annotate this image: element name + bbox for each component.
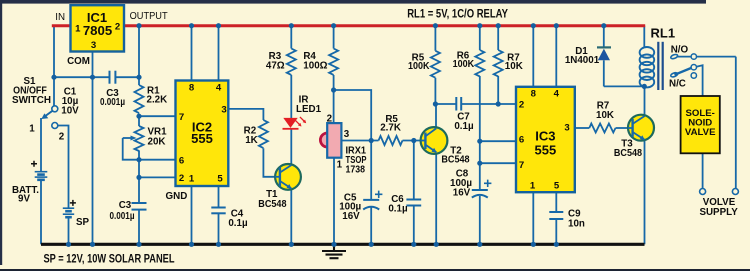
wire: IC2 pin3 line to R2 (228, 109, 263, 120)
battery BATT 9V (35, 172, 48, 180)
frame bottom (0, 269, 750, 271)
svg-text:8: 8 (189, 83, 195, 94)
wire: rail end to coil top (643, 26, 645, 48)
svg-text:7: 7 (519, 160, 524, 171)
wire: IC1 pin3 column (92, 52, 94, 245)
capacitor C5 electrolytic (363, 200, 379, 210)
capacitor C7 (horizontal) (456, 97, 461, 111)
transistor T2 BC548 (420, 127, 447, 154)
wire: IC2 pin6 line (139, 159, 176, 161)
wire: LED to T1 collector (290, 130, 292, 165)
wire: N/O contact line to right column (678, 56, 736, 58)
capacitor C8 electrolytic (472, 190, 488, 198)
capacitor C6 (406, 200, 421, 206)
diode D1 1N4001 (597, 47, 611, 60)
wire: T1 emitter to rail (290, 190, 292, 245)
capacitor C3 bottom (132, 203, 147, 210)
svg-text:47Ω: 47Ω (266, 61, 285, 72)
svg-text:1: 1 (337, 160, 343, 171)
svg-text:1: 1 (75, 24, 81, 35)
svg-text:1N4001: 1N4001 (565, 55, 600, 66)
wire: R1/VR1 column (138, 26, 140, 85)
svg-text:SP: SP (76, 217, 90, 228)
svg-text:7805: 7805 (83, 23, 112, 38)
IR LED1 (283, 117, 307, 129)
wire: pole to solenoid box (696, 65, 702, 96)
wire: TSOP pin1 to rail (333, 158, 335, 245)
wire: solenoid box bottom to supply circle (702, 153, 704, 188)
wire: C7 line (pin2 of IC3) (435, 103, 456, 105)
svg-text:BC548: BC548 (441, 155, 470, 166)
supply terminals (700, 189, 706, 195)
transistor T1 BC548 (275, 164, 301, 190)
svg-text:555: 555 (535, 142, 557, 157)
svg-text:2: 2 (519, 100, 524, 111)
wire: left IN vertical from rail to switch (53, 26, 55, 106)
svg-text:555: 555 (191, 131, 213, 146)
svg-text:6: 6 (519, 135, 524, 146)
wire: IC2 pin1 column to rail (191, 186, 193, 244)
svg-text:2: 2 (179, 173, 184, 184)
svg-text:OUTPUT: OUTPUT (130, 11, 168, 22)
svg-text:BC548: BC548 (258, 199, 287, 210)
svg-text:0.001µ: 0.001µ (100, 97, 125, 108)
svg-text:10n: 10n (568, 219, 585, 230)
svg-text:2: 2 (59, 132, 65, 143)
wire: IC3 pin4 column (555, 26, 557, 87)
svg-text:7: 7 (179, 112, 184, 123)
svg-text:100K: 100K (453, 59, 475, 70)
resistor R7 10K top (494, 50, 503, 76)
svg-text:IC3: IC3 (535, 128, 555, 143)
wire: R2 bottom to T1 base (263, 148, 274, 177)
svg-text:N/C: N/C (669, 79, 686, 90)
wire: IC2 pin5 / C4 column (218, 186, 220, 208)
svg-text:RL1 = 5V, 1C/O RELAY: RL1 = 5V, 1C/O RELAY (407, 7, 508, 20)
wire: IC2 pin8 column (191, 26, 193, 81)
relay contacts (670, 54, 696, 79)
SP plus (70, 200, 76, 206)
wire: D1 to coil bottom (604, 85, 645, 87)
svg-text:16V: 16V (342, 211, 360, 222)
solar panel SP symbol (63, 208, 74, 217)
switch S1 (41, 106, 58, 129)
svg-text:3: 3 (344, 129, 350, 140)
transistor T3 BC548 (628, 115, 654, 141)
wire: R3/LED column top (290, 26, 292, 49)
svg-text:1: 1 (189, 174, 195, 185)
C5 plus sign (375, 191, 382, 198)
wire: VR1 wiper arrow line (123, 137, 133, 139)
frame top (0, 0, 706, 4)
wire: TSOP pin3 line / R5 2.7K run (341, 140, 378, 142)
top power rail (red) (52, 24, 645, 27)
svg-text:BC548: BC548 (614, 148, 643, 159)
wire: T2 emitter to rail (435, 154, 437, 245)
svg-text:10V: 10V (61, 106, 79, 117)
svg-text:3: 3 (221, 105, 226, 116)
wire: IC3 pin7 line (480, 162, 516, 164)
wire: COM horizontal line (54, 76, 110, 78)
wire: IC2 pin2 line (139, 176, 176, 178)
wire: IC2 pin7 line (139, 115, 176, 117)
svg-text:RL1: RL1 (651, 26, 676, 41)
wire: C6 column (413, 141, 415, 200)
svg-text:4: 4 (554, 89, 560, 100)
svg-text:SWITCH: SWITCH (12, 95, 51, 106)
resistor R4 100ohm (329, 49, 338, 75)
svg-text:100K: 100K (408, 61, 430, 72)
svg-text:20K: 20K (148, 137, 166, 148)
relay RL1 coil (640, 47, 655, 87)
C8 plus sign (484, 180, 491, 187)
wire: coil bottom to T3 collector (644, 86, 646, 114)
wire: battery column (40, 118, 42, 172)
svg-text:10K: 10K (505, 61, 523, 72)
svg-text:100Ω: 100Ω (303, 61, 327, 72)
svg-text:2.2K: 2.2K (147, 94, 168, 105)
wire: C5 column (370, 141, 372, 200)
wire: SP branch (58, 126, 69, 208)
wire: IC3 pin1 column (532, 192, 534, 244)
wire: D1 column (603, 26, 605, 47)
svg-text:SP = 12V, 10W SOLAR PANEL: SP = 12V, 10W SOLAR PANEL (44, 252, 175, 265)
svg-text:8: 8 (531, 89, 537, 100)
svg-text:LED1: LED1 (296, 104, 322, 115)
svg-text:6: 6 (179, 156, 184, 167)
wire: R7 top column (497, 26, 499, 50)
wire: R5 100K column / T2 collector (434, 26, 436, 51)
svg-text:10K: 10K (596, 110, 614, 121)
wire: T3 emitter to rail (644, 141, 646, 245)
wire: IC3 pin3 line to R7 (575, 127, 590, 129)
svg-text:2: 2 (327, 113, 333, 124)
svg-text:2.7K: 2.7K (380, 122, 401, 133)
frame left (0, 0, 2, 265)
wire: VR1 wiper bypass (123, 138, 139, 160)
wire: R4 column (333, 26, 335, 49)
svg-text:COM: COM (67, 56, 90, 67)
capacitor C9 (549, 212, 563, 219)
bottom ground rail (black) (41, 243, 645, 246)
svg-text:C3: C3 (119, 200, 132, 211)
resistor R3 47ohm (287, 49, 296, 75)
wire: IC3 pin6 line (480, 140, 516, 142)
resistor R1 2.2K (135, 85, 144, 113)
svg-text:1738: 1738 (346, 165, 366, 176)
IR receiver IRX1 TSOP1738 (320, 123, 341, 158)
VR1 arrow head (131, 136, 137, 141)
svg-text:5: 5 (217, 174, 223, 185)
capacitor C3 top (horizontal) (110, 71, 116, 84)
svg-text:0.001µ: 0.001µ (110, 211, 135, 222)
svg-text:0.1µ: 0.1µ (388, 204, 408, 215)
svg-text:3: 3 (564, 123, 569, 134)
resistor R2 1K (259, 120, 268, 148)
svg-text:0.1µ: 0.1µ (228, 218, 248, 229)
svg-text:2: 2 (115, 22, 120, 33)
svg-text:9V: 9V (18, 194, 30, 205)
solenoid valve box (681, 96, 720, 153)
IC2 555 (176, 81, 229, 187)
svg-text:1: 1 (530, 181, 536, 192)
relay core bars (658, 42, 662, 90)
svg-text:0.1µ: 0.1µ (454, 121, 474, 132)
svg-text:VALVE: VALVE (685, 127, 716, 138)
svg-text:16V: 16V (453, 188, 471, 199)
resistor R5 100K (431, 51, 440, 78)
IC3 555 (516, 87, 575, 192)
svg-text:N/O: N/O (671, 45, 689, 56)
wire: R6 column (479, 26, 481, 50)
IC1 7805 (71, 5, 125, 51)
ground symbol (322, 246, 346, 258)
svg-text:IN: IN (55, 12, 65, 23)
capacitor C4 (211, 208, 225, 214)
svg-text:1: 1 (29, 124, 35, 135)
wire: C8 column (479, 141, 481, 190)
wire: IC2 pin4 column (218, 26, 220, 81)
wire: R4 junction to C5 column (334, 90, 372, 141)
svg-text:SUPPLY: SUPPLY (699, 207, 738, 218)
potentiometer VR1 20K (135, 126, 144, 151)
resistor R6 100K (475, 50, 484, 76)
svg-text:5: 5 (554, 181, 560, 192)
svg-text:4: 4 (216, 83, 222, 94)
resistor R5 2.7K horizontal (379, 136, 403, 145)
svg-text:1K: 1K (245, 135, 258, 146)
wire: IC3 pin8 column (532, 26, 534, 87)
svg-text:3: 3 (91, 40, 96, 51)
wire: R3 to LED (290, 75, 292, 118)
wire: IC3 pin5 / C9 column (555, 192, 557, 212)
resistor R7 10K at IC3 pin3 (589, 124, 615, 133)
svg-text:GND: GND (166, 191, 188, 202)
battery plus (31, 161, 37, 167)
